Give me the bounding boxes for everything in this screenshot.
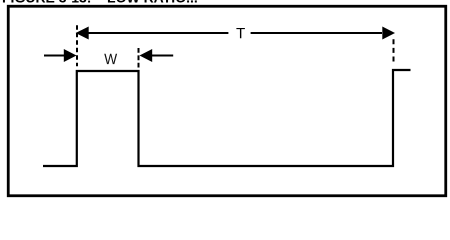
dashed extension line, falling edge	[138, 48, 140, 68]
label W	[104, 54, 117, 64]
dimension T shaft right	[251, 32, 382, 34]
dimension W left shaft	[44, 54, 65, 56]
svg-text:FIGURE 3-13: LOW RATIO...: FIGURE 3-13: LOW RATIO...	[2, 0, 198, 6]
dimension T left arrowhead	[76, 27, 89, 40]
dimension W right shaft	[151, 54, 173, 56]
dimension W left arrowhead	[64, 49, 77, 62]
label T	[236, 28, 244, 38]
border frame	[8, 6, 446, 196]
dashed extension line, period end	[393, 39, 395, 62]
waveform	[43, 70, 411, 166]
dashed extension line, rising edge	[76, 25, 78, 66]
dimension T right arrowhead	[382, 27, 395, 40]
dimension T shaft left	[87, 32, 228, 34]
dimension W right arrowhead	[140, 49, 153, 62]
